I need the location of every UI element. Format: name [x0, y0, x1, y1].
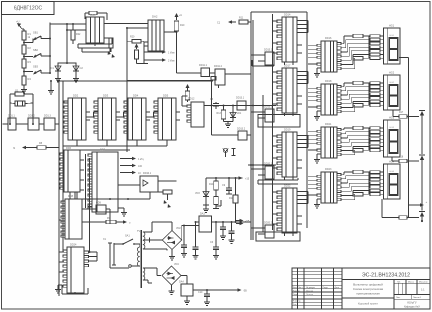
svg-text:+U: +U — [16, 20, 20, 24]
capacitor C1 — [58, 62, 76, 64]
output arrow 2izm — [144, 59, 163, 61]
svg-text:Курсовой проект: Курсовой проект — [358, 302, 379, 306]
wire segment links — [341, 129, 344, 131]
counter DD3 — [98, 98, 116, 140]
svg-text:DD19: DD19 — [284, 129, 291, 132]
svg-text:DD23: DD23 — [325, 168, 332, 171]
svg-text:DD15.1: DD15.1 — [264, 49, 273, 52]
svg-text:DA1: DA1 — [90, 13, 96, 17]
resistor R8 — [37, 146, 46, 150]
ground — [317, 198, 321, 200]
wire rail — [126, 28, 128, 152]
svg-text:Листов 1: Листов 1 — [413, 297, 422, 299]
document code box — [2, 2, 55, 15]
svg-text:DD3: DD3 — [103, 94, 109, 98]
wire link — [248, 164, 276, 166]
wire — [212, 134, 239, 136]
svg-text:Кафедра АиУ: Кафедра АиУ — [404, 305, 420, 308]
svg-text:Разраб.: Разраб. — [293, 290, 301, 292]
wire — [211, 80, 213, 105]
svg-text:10: 10 — [138, 172, 141, 175]
wire loop under counters — [63, 145, 167, 147]
wire — [80, 189, 84, 191]
wire bus C — [262, 95, 264, 232]
svg-text:R14: R14 — [209, 183, 214, 186]
decoder DD23 — [321, 172, 337, 203]
wire — [63, 102, 68, 104]
resistor R14 — [215, 178, 217, 181]
wire — [143, 56, 145, 64]
svg-text:R17: R17 — [399, 112, 404, 114]
svg-text:HG1: HG1 — [389, 25, 395, 28]
mains plug X1 — [109, 243, 111, 265]
resistor R12 — [185, 91, 190, 100]
wire — [251, 168, 261, 170]
svg-text:C6: C6 — [210, 241, 214, 244]
svg-text:Лист: Лист — [298, 287, 303, 289]
counter DD5 — [158, 98, 176, 140]
crystal ZQ1 — [15, 101, 25, 106]
segment resistor network — [368, 83, 370, 105]
wire — [187, 100, 189, 102]
resistor R20 — [132, 40, 141, 44]
ground — [317, 67, 321, 69]
display HG4 — [384, 164, 401, 199]
svg-text:HG3: HG3 — [389, 117, 395, 120]
svg-text:HG3: HG3 — [390, 127, 395, 129]
wire — [171, 250, 173, 255]
register DD24 — [67, 247, 84, 293]
wire — [57, 75, 59, 77]
logic DD11.1 — [201, 68, 210, 77]
svg-text:Лист: Лист — [396, 297, 400, 299]
svg-text:R11: R11 — [239, 17, 244, 20]
svg-text:DD1.3: DD1.3 — [44, 115, 51, 118]
resistor R18 — [399, 159, 407, 163]
wire loop — [61, 287, 63, 294]
svg-text:C10: C10 — [198, 291, 203, 294]
resistor anode — [353, 170, 363, 174]
wire — [381, 199, 383, 218]
wire — [308, 87, 317, 89]
wire — [86, 116, 94, 118]
svg-text:DD21: DD21 — [325, 123, 332, 126]
resistor R19 — [399, 216, 407, 220]
wire — [181, 226, 183, 241]
inverter DD1.3 — [44, 118, 55, 130]
supply tap 2 — [409, 160, 420, 162]
output arrow — [116, 221, 124, 223]
svg-text:Петров: Петров — [306, 294, 314, 296]
freq output arrow — [25, 147, 37, 149]
svg-text:R20: R20 — [130, 36, 135, 39]
ground — [123, 208, 125, 210]
svg-text:Лит.: Лит. — [397, 282, 401, 284]
ground — [171, 254, 173, 257]
flip-flop DD20.1 — [265, 166, 274, 179]
wire — [59, 219, 62, 221]
wire — [104, 23, 148, 25]
comparator DD9.1 — [96, 205, 106, 214]
capacitor C7 — [222, 222, 224, 227]
zener VD3 — [205, 178, 207, 190]
svg-text:R4: R4 — [28, 77, 32, 81]
svg-text:X1: X1 — [103, 238, 107, 241]
regulator DA3 — [199, 216, 212, 232]
regulator DA4 — [181, 284, 193, 296]
wire bus F — [272, 14, 274, 230]
svg-text:SB3: SB3 — [33, 65, 38, 69]
svg-text:+U: +U — [179, 14, 182, 17]
wire — [23, 40, 25, 45]
wire — [164, 31, 177, 33]
wire — [212, 221, 252, 223]
wire — [193, 289, 237, 291]
wire — [3, 123, 9, 125]
wire top — [251, 11, 307, 13]
svg-text:DD22: DD22 — [284, 185, 291, 188]
svg-text:R10: R10 — [180, 24, 185, 27]
lit massa masshtab table — [394, 282, 430, 284]
svg-text:DD4: DD4 — [133, 94, 139, 98]
terminal — [129, 265, 132, 268]
output arrow 2 — [120, 165, 133, 167]
wire — [308, 44, 317, 46]
segment resistor network — [368, 36, 370, 58]
counter DD22 — [282, 188, 297, 233]
svg-text:+15: +15 — [245, 178, 250, 181]
wire — [308, 130, 317, 132]
wire — [182, 105, 187, 107]
svg-text:Пров.: Пров. — [293, 294, 299, 296]
resistor R7 — [15, 92, 24, 96]
svg-text:DD7: DD7 — [100, 149, 106, 152]
title block — [292, 268, 430, 309]
ground — [50, 81, 52, 88]
capacitor C3 — [215, 102, 217, 104]
svg-text:Схема электрическая: Схема электрическая — [353, 287, 384, 291]
wire — [251, 227, 261, 229]
wire bus D — [306, 12, 308, 228]
tap switch SB3 — [24, 71, 33, 73]
svg-text:VD2: VD2 — [176, 227, 181, 230]
wire — [251, 54, 261, 56]
segment resistor network — [368, 128, 370, 150]
list row — [394, 298, 430, 300]
svg-text:C2: C2 — [80, 66, 84, 70]
svg-text:SA1: SA1 — [125, 235, 130, 238]
power arrow +U3 — [187, 87, 189, 92]
capacitor C4 — [183, 226, 185, 246]
output arrow 3 — [120, 172, 133, 174]
logic DD13.1 — [237, 101, 246, 110]
wire loop row4 — [256, 232, 300, 241]
wire — [210, 72, 216, 74]
svg-text:Иванов: Иванов — [306, 290, 314, 292]
svg-text:ЭС-21.ВН1234.2012: ЭС-21.ВН1234.2012 — [362, 273, 410, 279]
wire link — [251, 105, 276, 107]
svg-text:+5В: +5В — [245, 220, 250, 223]
svg-text:f1: f1 — [13, 146, 16, 150]
svg-text:VD3: VD3 — [195, 192, 200, 195]
svg-text:Масштаб: Масштаб — [419, 282, 428, 284]
svg-text:1k: 1k — [28, 36, 31, 39]
capacitor C9 — [228, 178, 230, 188]
logic DD11.2 — [215, 69, 225, 85]
diode VD1 — [232, 106, 234, 111]
logic DD13.2 — [238, 131, 247, 140]
counter DD19 — [282, 132, 297, 177]
resistor R22 — [72, 24, 74, 30]
wire long rail — [75, 198, 150, 200]
svg-text:SB2: SB2 — [33, 48, 38, 52]
wire — [127, 27, 148, 29]
display HG3 — [384, 120, 401, 157]
wire — [308, 175, 317, 177]
wire — [66, 24, 68, 63]
svg-text:DD1.1: DD1.1 — [8, 115, 15, 118]
resistor cathode — [353, 148, 363, 152]
svg-text:C9: C9 — [222, 184, 226, 187]
svg-text:+: + — [426, 200, 428, 204]
capacitor C5 — [195, 222, 197, 247]
wire — [196, 221, 200, 223]
wire — [171, 285, 173, 289]
control DD12 — [191, 102, 204, 127]
net symbol I — [233, 148, 235, 156]
name cell — [342, 297, 394, 299]
svg-text:-5В: -5В — [243, 290, 247, 293]
capacitor C8 — [231, 222, 233, 231]
display HG1 — [384, 28, 401, 64]
wire — [177, 72, 202, 74]
svg-text:Масса: Масса — [408, 282, 415, 284]
resistor R9 — [106, 220, 116, 224]
svg-text:100: 100 — [138, 165, 143, 168]
segment resistor network — [368, 172, 370, 194]
svg-text:DD13.1: DD13.1 — [236, 97, 245, 100]
wire — [22, 28, 24, 30]
svg-text:VD4: VD4 — [174, 263, 179, 266]
svg-text:DD15.2: DD15.2 — [264, 106, 273, 109]
resistor R10 — [174, 21, 179, 31]
flip-flop DD20.2 — [265, 225, 274, 238]
wire — [59, 251, 64, 253]
wire bus A — [250, 12, 252, 240]
wire — [143, 248, 167, 250]
resistor R16 — [235, 178, 237, 195]
svg-text:HG1: HG1 — [390, 35, 395, 37]
svg-text:ЮУрГУ: ЮУрГУ — [407, 300, 417, 304]
bridge rectifier VD4 — [162, 266, 181, 285]
inverter DD1.1 — [8, 118, 16, 130]
inverter DD1.2 — [28, 118, 39, 130]
svg-text:DA4: DA4 — [179, 281, 184, 284]
svg-text:DD24: DD24 — [70, 244, 77, 247]
wire bus — [62, 81, 64, 250]
junction box — [211, 77, 216, 81]
svg-text:R2: R2 — [28, 46, 32, 50]
wire vertical link — [89, 158, 91, 252]
one-shot DD10.1 — [140, 176, 158, 192]
integrator DA2 — [148, 20, 164, 51]
wire — [143, 279, 148, 281]
wire — [89, 251, 98, 253]
output arrow 1 — [120, 158, 133, 160]
resistor R11 — [239, 20, 248, 24]
svg-text:Н.контр.: Н.контр. — [293, 301, 301, 303]
decoder DD16 — [321, 41, 337, 72]
wire — [94, 43, 96, 46]
resistor R6 — [109, 38, 113, 48]
svg-text:1:1: 1:1 — [421, 288, 425, 292]
wire — [109, 265, 111, 268]
ground — [186, 296, 188, 299]
register DD8 — [65, 199, 82, 239]
svg-text:DD16: DD16 — [325, 37, 332, 40]
switch SA1 — [113, 243, 115, 244]
svg-text:R16: R16 — [229, 197, 234, 200]
svg-text:HG2: HG2 — [389, 72, 395, 75]
decoder DD21 — [321, 127, 337, 158]
svg-text:DD14: DD14 — [284, 14, 291, 17]
resistor R3 — [22, 59, 26, 68]
svg-text:6ДН8Г12ОС: 6ДН8Г12ОС — [14, 6, 43, 12]
wire — [143, 267, 157, 269]
svg-text:DD10.1: DD10.1 — [143, 172, 152, 175]
wire — [23, 68, 25, 76]
resistor R15 — [215, 190, 217, 197]
wire — [23, 54, 25, 59]
wire — [82, 221, 106, 223]
tap switch SB2 — [24, 56, 33, 58]
ground — [317, 153, 321, 155]
net symbol Y — [225, 152, 227, 157]
register DD6 — [64, 150, 80, 192]
wire — [127, 79, 212, 81]
svg-text:DD11.1: DD11.1 — [199, 64, 208, 67]
power arrow +U1 — [19, 25, 23, 30]
wire bus — [58, 81, 60, 296]
wire — [85, 154, 87, 208]
ground — [213, 208, 219, 210]
resistor cathode — [353, 103, 363, 107]
wire loop row3 — [258, 179, 298, 181]
wire top rail — [50, 23, 86, 25]
svg-text:DD20.2: DD20.2 — [264, 222, 273, 225]
counter DD14 — [282, 17, 297, 62]
resistor cathode — [353, 56, 363, 60]
svg-text:DD2: DD2 — [73, 94, 79, 98]
pulse shaper parts — [163, 190, 172, 194]
wire — [150, 239, 163, 241]
resistor R13 — [223, 106, 225, 111]
output arrow +5V b — [236, 223, 241, 225]
title block revision table — [341, 268, 343, 309]
resistor anode — [353, 34, 363, 38]
svg-text:принципиальная: принципиальная — [356, 292, 380, 296]
svg-text:R22: R22 — [76, 33, 81, 36]
svg-text:DD18: DD18 — [325, 80, 332, 83]
wire segment links — [341, 86, 344, 88]
output arrow +5V a — [236, 220, 241, 222]
svg-text:DD6: DD6 — [66, 147, 72, 150]
svg-text:2 Изм: 2 Изм — [168, 60, 175, 63]
tap switch SB1 — [24, 42, 33, 44]
svg-text:Вольтметр цифровой: Вольтметр цифровой — [353, 283, 383, 287]
svg-text:DD8: DD8 — [68, 195, 74, 198]
svg-text:DA3: DA3 — [200, 213, 205, 216]
wire — [225, 73, 251, 75]
bridge rectifier VD2 — [162, 231, 181, 250]
resistor R4 — [22, 76, 26, 85]
svg-text:Изм: Изм — [293, 287, 297, 289]
flip-flop DD15.2 — [265, 109, 274, 122]
svg-text:DD5: DD5 — [163, 94, 169, 98]
ground — [205, 205, 207, 207]
wire — [421, 118, 423, 155]
wire — [73, 23, 86, 25]
power arrow +U2 — [176, 16, 178, 21]
ground — [171, 289, 173, 292]
resistor anode — [353, 81, 363, 85]
svg-text:HG2: HG2 — [390, 82, 395, 84]
decoder DD18 — [321, 84, 337, 115]
wire bus E — [408, 58, 410, 219]
svg-text:C3: C3 — [210, 98, 214, 101]
svg-text:Утв.: Утв. — [293, 304, 297, 306]
supply arrow +5V displays — [409, 204, 416, 206]
wire — [80, 159, 84, 161]
supply tap 3 — [409, 217, 420, 219]
wire feedback loop — [78, 43, 112, 45]
secondary tap — [143, 239, 150, 241]
resistor R1 — [22, 31, 26, 40]
svg-text:DA2: DA2 — [152, 15, 158, 19]
designation cell — [342, 279, 430, 281]
register DD7 — [92, 152, 118, 212]
wire — [392, 110, 394, 117]
resistor R21 — [135, 50, 139, 59]
wire — [235, 203, 237, 222]
counter DD2 — [68, 98, 86, 140]
supply tap 1 — [409, 116, 420, 118]
power arrow up — [136, 47, 138, 49]
svg-text:Подп.: Подп. — [323, 287, 329, 289]
resistor R2 — [22, 45, 26, 54]
wire input bus — [49, 23, 51, 74]
svg-text:R13: R13 — [217, 112, 222, 115]
wire — [143, 231, 152, 233]
capacitor C6 — [215, 222, 217, 247]
output arrow -5V — [230, 289, 239, 291]
svg-text:DD12: DD12 — [188, 98, 195, 101]
op-amp DA1 — [86, 17, 104, 43]
wire — [67, 29, 86, 31]
wire — [118, 184, 140, 186]
wire — [391, 157, 393, 161]
counter DD17 — [282, 68, 297, 113]
svg-text:DD17: DD17 — [284, 65, 291, 68]
power arrows — [108, 51, 111, 55]
wire bus B — [252, 20, 254, 240]
display HG2 — [384, 75, 401, 110]
svg-text:HG4: HG4 — [390, 171, 395, 173]
svg-text:DD13.2: DD13.2 — [237, 128, 246, 131]
flip-flop DD15.1 — [265, 52, 274, 65]
ground — [227, 122, 229, 125]
resistor R17 — [399, 115, 407, 119]
